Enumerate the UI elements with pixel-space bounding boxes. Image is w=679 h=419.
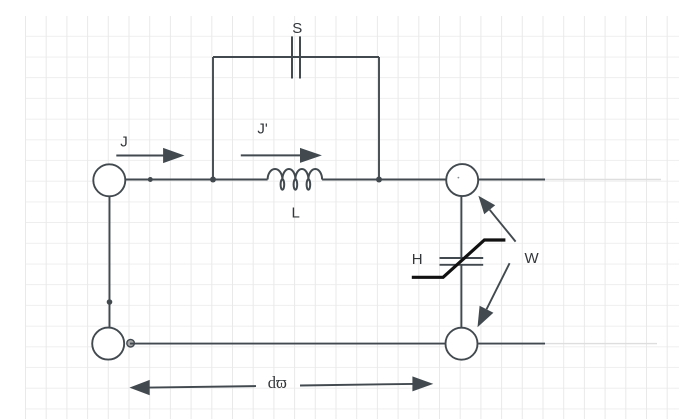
arrow W-to-bottom-circle (478, 263, 510, 327)
wire right vertical lower (460, 265, 462, 327)
svg-text:J': J' (257, 121, 268, 138)
wire top-right-of-coil horizontal segment (322, 179, 446, 181)
dimension arrow d-varpi (129, 376, 433, 395)
svg-text:J: J (120, 134, 128, 151)
arrow J (116, 148, 184, 163)
node tiny dot inside top-right circle (458, 177, 460, 179)
svg-text:L: L (292, 204, 300, 221)
wire bottom right of circle (478, 343, 545, 345)
wire faint continuation bottom right (545, 343, 657, 345)
svg-text:W: W (525, 250, 540, 267)
node junction dot C (376, 177, 382, 183)
wire top-left horizontal segment (126, 179, 268, 181)
arrow W-to-top-circle (478, 196, 515, 242)
wire left vertical (109, 197, 111, 327)
wire capacitor branch left vertical (212, 57, 214, 180)
capacitor H plates (440, 258, 484, 265)
saturation curve of H (thick black) (412, 240, 506, 277)
wire capacitor branch top horizontal (213, 56, 379, 58)
wire bottom horizontal (130, 343, 445, 345)
inductor L (268, 169, 323, 190)
capacitor S plates (292, 36, 300, 78)
terminal circle bottom-right (446, 328, 478, 360)
node junction dot B (210, 177, 216, 183)
wire faint continuation top right (545, 179, 661, 181)
svg-text:S: S (292, 20, 302, 37)
terminal circle bottom-left (92, 328, 124, 360)
terminal circle top-right (446, 164, 478, 196)
node gray connection dot (127, 339, 135, 347)
terminal circle top-left (93, 164, 125, 196)
wire from top-right circle to the right (479, 179, 545, 181)
wire capacitor branch right vertical (378, 57, 380, 180)
svg-text:dϖ: dϖ (268, 373, 287, 392)
svg-text:H: H (412, 251, 423, 268)
node junction dot D on left vertical (107, 299, 113, 305)
arrow J' (241, 148, 322, 163)
wire right vertical upper (460, 197, 462, 258)
node junction dot A (148, 177, 153, 182)
